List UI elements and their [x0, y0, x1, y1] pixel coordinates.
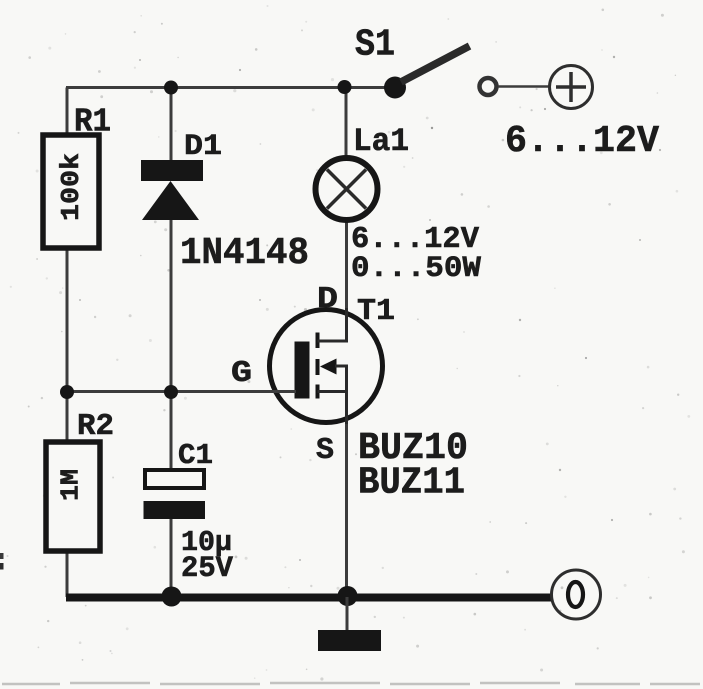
switch S1 lever: [401, 46, 470, 82]
switch S1 pivot: [384, 77, 406, 99]
capacitor C1 top plate: [145, 470, 204, 488]
resistor R2: [46, 442, 100, 551]
wire gate horizontal: [67, 390, 296, 393]
svg-text:1M: 1M: [56, 469, 86, 501]
svg-text:G: G: [231, 356, 252, 391]
svg-text:BUZ11: BUZ11: [358, 462, 465, 505]
svg-text:S: S: [316, 433, 334, 468]
svg-text:D1: D1: [184, 130, 222, 164]
svg-text:1N4148: 1N4148: [180, 232, 309, 275]
T1 source tick: [316, 385, 320, 399]
svg-text:D: D: [317, 282, 338, 317]
T1 gate wire into circle: [270, 390, 296, 393]
svg-text:0...50W: 0...50W: [351, 252, 481, 286]
wire top rail: [66, 86, 396, 89]
capacitor C1 bottom plate: [144, 501, 206, 519]
terminal 0: [552, 570, 601, 619]
T1 drain lead: [318, 340, 349, 343]
scan artifact bottom dashed line: [2, 683, 700, 684]
T1 body tick: [316, 359, 320, 375]
svg-text:100k: 100k: [56, 153, 86, 221]
svg-text:C1: C1: [178, 439, 213, 472]
wire ground stub: [346, 597, 349, 631]
wire left vertical branch: [66, 88, 69, 137]
T1 source vertical inside: [345, 366, 348, 424]
terminal + supply: [550, 66, 593, 109]
T1 gate bar: [295, 342, 310, 399]
T1 source lead: [318, 390, 349, 393]
wire source vertical: [345, 366, 348, 597]
wire contact to plus terminal: [498, 85, 549, 88]
switch S1 open contact: [480, 78, 497, 95]
ground: [318, 630, 381, 651]
scan artifact left edge: [0, 553, 4, 559]
wire lamp/drain vertical: [345, 88, 348, 161]
node bottom rail / C1 junction: [162, 587, 182, 607]
resistor R1: [43, 135, 99, 248]
node top rail / D1 junction: [164, 81, 178, 95]
wire D1/C1 vertical branch: [170, 88, 173, 164]
transistor T1 MOSFET: [270, 310, 383, 423]
T1 body lead: [335, 365, 348, 368]
diode D1 triangle: [142, 181, 199, 220]
wire bottom rail: [66, 594, 552, 602]
svg-text:S1: S1: [355, 24, 395, 67]
T1 drain tick: [316, 333, 320, 349]
svg-text:R1: R1: [74, 104, 111, 141]
T1 body arrow: [320, 359, 337, 375]
svg-text:La1: La1: [353, 123, 409, 160]
svg-text:25V: 25V: [181, 552, 233, 586]
diode D1 cathode bar: [141, 160, 203, 181]
node top rail / lamp junction: [338, 80, 352, 94]
svg-text:T1: T1: [357, 294, 395, 329]
svg-text:6...12V: 6...12V: [505, 120, 659, 163]
node gate line / C1 junction: [164, 385, 178, 399]
node bottom rail / source junction: [338, 586, 358, 606]
lamp La1: [316, 158, 378, 220]
svg-text:R2: R2: [77, 409, 114, 444]
node gate line / left branch junction: [60, 385, 74, 399]
